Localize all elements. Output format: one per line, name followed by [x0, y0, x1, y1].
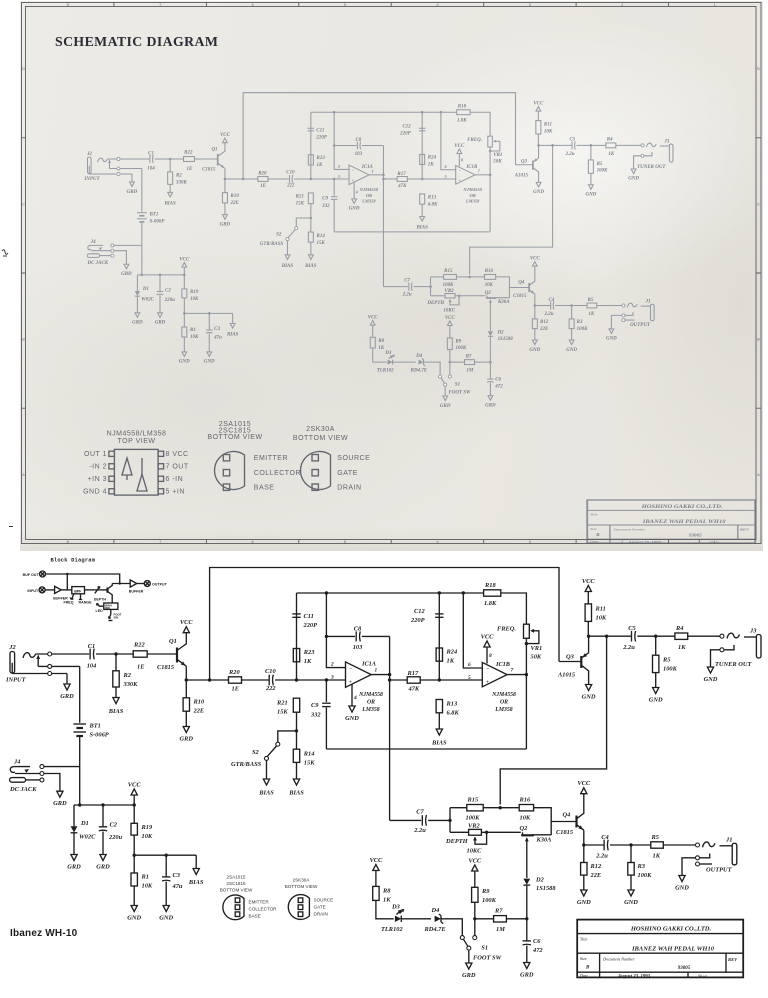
svg-text:D: D [22, 66, 25, 71]
svg-text:BOTTOM VIEW: BOTTOM VIEW [293, 435, 348, 442]
faded scanned schematic copy [83, 93, 673, 409]
svg-text:BOTTOM VIEW: BOTTOM VIEW [220, 887, 253, 892]
svg-text:DRAIN: DRAIN [314, 911, 328, 916]
svg-text:BUF OUT: BUF OUT [23, 573, 40, 577]
svg-text:GATE: GATE [314, 904, 326, 909]
svg-text:2SK30A: 2SK30A [306, 426, 335, 433]
svg-text:B: B [757, 337, 760, 342]
bottom crisp schematic [5, 558, 761, 980]
svg-text:LED: LED [96, 609, 104, 613]
svg-text:RANGE: RANGE [79, 600, 93, 604]
BPF box [61, 589, 72, 591]
svg-text:BPF: BPF [74, 590, 82, 594]
svg-text:SOURCE: SOURCE [337, 455, 370, 462]
svg-text:BASE: BASE [249, 913, 261, 918]
svg-text:2SA1015: 2SA1015 [227, 874, 246, 879]
svg-text:8 VCC: 8 VCC [166, 451, 189, 458]
LED + switch box [111, 597, 113, 604]
svg-text:OUTPUT: OUTPUT [152, 583, 168, 587]
svg-text:6 -IN: 6 -IN [166, 476, 184, 483]
svg-text:D: D [757, 66, 760, 71]
svg-text:5 +IN: 5 +IN [166, 489, 185, 496]
svg-text:GATE: GATE [337, 470, 358, 477]
svg-text:FREQ: FREQ [64, 600, 74, 604]
svg-text:2SK30A: 2SK30A [293, 877, 311, 882]
svg-text:TOP VIEW: TOP VIEW [118, 438, 156, 445]
svg-text:EMITTER: EMITTER [249, 899, 270, 904]
svg-text:GND 4: GND 4 [83, 489, 107, 496]
svg-text:C: C [757, 201, 760, 206]
wire block top [46, 574, 120, 584]
svg-text:C: C [22, 201, 25, 206]
svg-text:A: A [757, 472, 760, 477]
svg-text:NJM4558/LM358: NJM4558/LM358 [107, 431, 167, 438]
svg-text:DEPTH: DEPTH [94, 598, 107, 602]
VCA arrow element [85, 589, 95, 591]
svg-text:BOTTOM VIEW: BOTTOM VIEW [207, 434, 262, 441]
svg-text:2SC1815: 2SC1815 [226, 881, 246, 886]
svg-text:COLLECTOR: COLLECTOR [254, 470, 301, 477]
svg-text:IND: IND [105, 606, 110, 610]
transistor (block) [100, 589, 108, 591]
svg-text:SW: SW [114, 616, 119, 620]
buffer 2 [130, 580, 137, 587]
svg-text:INPUT: INPUT [27, 589, 39, 593]
pots under box [70, 594, 74, 600]
svg-text:BOTTOM VIEW: BOTTOM VIEW [285, 884, 318, 889]
svg-text:EMITTER: EMITTER [254, 455, 288, 462]
scan border frame [22, 3, 762, 544]
svg-text:COLLECTOR: COLLECTOR [249, 906, 278, 911]
svg-text:Ibanez WH-10: Ibanez WH-10 [10, 928, 78, 939]
svg-text:-IN 2: -IN 2 [89, 464, 107, 471]
svg-text:Block Diagram: Block Diagram [51, 558, 96, 564]
node OUTPUT (block) [137, 583, 145, 585]
svg-text:7 OUT: 7 OUT [166, 464, 189, 471]
node BUF OUT [40, 571, 46, 577]
svg-text:DRAIN: DRAIN [337, 485, 361, 492]
buffer 1 [45, 589, 55, 591]
svg-text:SCHEMATIC DIAGRAM: SCHEMATIC DIAGRAM [55, 34, 218, 49]
svg-text:SOURCE: SOURCE [314, 897, 334, 902]
wire to buffer 2 [112, 583, 130, 585]
node INPUT (block) [39, 587, 45, 593]
svg-text:OUT 1: OUT 1 [84, 451, 107, 458]
svg-text:A: A [22, 472, 25, 477]
svg-text:+IN 3: +IN 3 [88, 476, 107, 483]
margin handwriting [2, 250, 8, 256]
svg-text:BUFFER: BUFFER [129, 590, 144, 594]
svg-text:BASE: BASE [254, 485, 275, 492]
svg-text:B: B [22, 337, 25, 342]
